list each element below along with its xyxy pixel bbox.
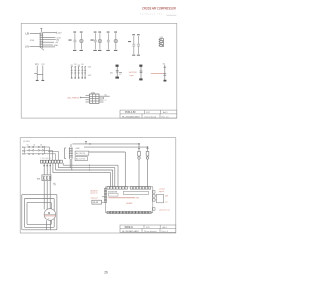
- svg-text:2A: 2A: [33, 144, 36, 147]
- svg-text:VD1: VD1: [88, 66, 92, 68]
- svg-text:RT1: RT1: [35, 64, 40, 66]
- svg-text:RT2: RT2: [41, 64, 45, 66]
- svg-text:power in: power in: [91, 192, 98, 195]
- svg-text:ZW1: ZW1: [136, 198, 140, 200]
- svg-text:pressure sw: pressure sw: [160, 208, 171, 211]
- svg-text:Wiring diagram: Wiring diagram: [144, 230, 157, 233]
- svg-text:AC 24V 50: AC 24V 50: [76, 152, 85, 155]
- svg-text:1 2 3 4 5 6 7 8: 1 2 3 4 5 6 7 8: [41, 158, 51, 160]
- svg-text:Rev 1.0: Rev 1.0: [162, 116, 170, 118]
- svg-text:4700: 4700: [30, 40, 35, 42]
- svg-text:CN3: CN3: [160, 37, 163, 39]
- svg-text:signal: signal: [159, 191, 165, 193]
- svg-text:CROSS AIR COMPRESSOR: CROSS AIR COMPRESSOR: [142, 6, 176, 10]
- svg-text:R2: R2: [74, 64, 76, 66]
- svg-text:R3: R3: [78, 65, 80, 67]
- svg-text:48V: 48V: [165, 196, 169, 198]
- svg-text:SB3: SB3: [22, 154, 27, 156]
- svg-text:Control board: Control board: [144, 115, 156, 118]
- svg-text:R4: R4: [81, 64, 83, 66]
- svg-text:48.4R: 48.4R: [93, 202, 99, 204]
- svg-text:(X): (X): [110, 73, 113, 75]
- svg-text:HL-3500AXL(A01): HL-3500AXL(A01): [122, 115, 140, 118]
- svg-text:22: 22: [105, 100, 107, 102]
- svg-text:SB2: SB2: [22, 150, 27, 152]
- svg-text:CN1-PWR22: CN1-PWR22: [67, 98, 80, 100]
- svg-text:VD2: VD2: [88, 75, 92, 77]
- svg-text:relay out: relay out: [91, 196, 99, 199]
- svg-text:out: out: [165, 200, 168, 203]
- svg-text:L/N: L/N: [25, 46, 29, 49]
- svg-text:hardware rev: hardware rev: [140, 12, 163, 15]
- svg-text:R1: R1: [71, 65, 73, 67]
- svg-text:K2: K2: [119, 74, 121, 76]
- svg-text:WIRE D.: WIRE D.: [125, 227, 134, 229]
- svg-text:S1: S1: [163, 63, 165, 65]
- svg-text:SB1: SB1: [22, 147, 27, 149]
- svg-text:Rev 1.0: Rev 1.0: [162, 231, 169, 233]
- svg-text:GND: GND: [54, 45, 59, 47]
- svg-text:AC220V: AC220V: [129, 71, 137, 74]
- svg-text:L/B: L/B: [25, 33, 29, 36]
- svg-text:26: 26: [104, 271, 108, 275]
- svg-text:PCB-A 50: PCB-A 50: [125, 111, 136, 114]
- svg-text:PE: PE: [54, 184, 57, 186]
- svg-text:QS 380V: QS 380V: [23, 141, 31, 143]
- svg-text:+24V: +24V: [75, 148, 80, 150]
- svg-text:+24V: +24V: [57, 33, 62, 35]
- svg-text:(Z): (Z): [105, 95, 108, 97]
- svg-text:HL-3500AXL(A02): HL-3500AXL(A02): [122, 230, 139, 233]
- svg-text:KM: KM: [37, 178, 40, 180]
- svg-text:AC 12V 50: AC 12V 50: [76, 158, 85, 161]
- svg-text:BOARD: BOARD: [126, 202, 133, 205]
- svg-text:B1 B2 B3: B1 B2 B3: [108, 191, 118, 193]
- svg-text:input: input: [129, 74, 134, 77]
- svg-text:A4-1: A4-1: [163, 111, 168, 114]
- svg-text:+5V: +5V: [55, 42, 59, 44]
